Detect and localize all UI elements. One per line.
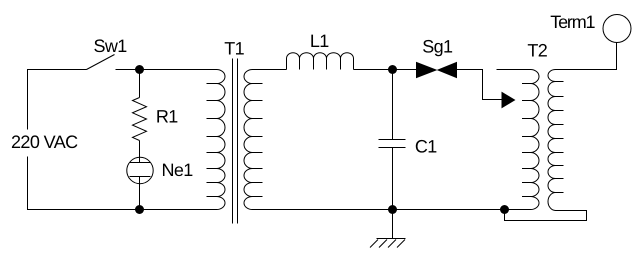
svg-text:220 VAC: 220 VAC [11,132,78,152]
wire: left rail upper (220 VAC loop) [28,70,87,130]
transformer T2 primary winding ticks [522,84,531,197]
svg-text:C1: C1 [415,136,437,156]
switch Sw1 blade [87,55,115,70]
svg-text:Sw1: Sw1 [94,36,128,56]
transformer T1 core [232,59,234,224]
svg-text:T2: T2 [527,41,547,61]
capacitor C1 top lead [392,70,394,140]
capacitor C1 top plate [379,139,406,141]
resistor R1 zigzag [133,98,147,141]
spark gap Sg1 left electrode [417,63,437,78]
node: junction dot T2 bottom [500,205,509,214]
neon lamp Ne1 top electrode [130,162,151,164]
svg-text:Ne1: Ne1 [162,160,194,180]
svg-text:R1: R1 [156,107,178,127]
wire: T2 primary top lead (open) [497,69,531,71]
wire: bottom rail T1 secondary to T2 primary [253,209,531,211]
transformer T1 primary winding ticks [207,84,217,197]
wire: junction down to R1 [139,70,141,98]
wire: R1 to Ne1 top electrode [139,141,141,163]
transformer T1 secondary winding ticks [253,84,263,197]
transformer T2 secondary winding ticks [556,82,564,193]
ground symbol hatching [370,240,405,248]
neon lamp Ne1 envelope [127,157,153,183]
svg-text:Term1: Term1 [550,12,595,32]
wire: T1 secondary top to L1 [253,69,287,71]
wire: switch output to T1 primary top [116,69,217,71]
tap arrow into T2 primary [502,93,515,108]
wire: bottom rail to T1 primary bottom [140,209,217,211]
transformer T2 secondary winding arcs [548,70,555,211]
neon lamp Ne1 bottom electrode [130,176,151,178]
spark gap Sg1 right electrode [438,63,457,78]
terminal Term1 sphere [603,15,631,43]
wire: junction to spark gap Sg1 [393,69,417,71]
capacitor C1 bottom plate [379,147,406,149]
inductor L1 loops [287,53,354,59]
wire: Sg1 to T2 primary tap [457,70,503,100]
wire: L1 to C1 top junction [354,69,417,71]
transformer T1 secondary winding arcs [244,70,253,210]
ground symbol bar [377,238,406,240]
node: junction dot C1 bottom / ground [388,205,397,214]
node: junction dot bottom of Ne1 branch [135,205,144,214]
node: junction dot L1/C1/Sg1 [388,65,397,74]
wire: T2 secondary bottom return loop [505,210,587,221]
transformer T1 primary winding arcs [217,70,226,210]
inductor L1 legs [287,59,354,70]
svg-text:L1: L1 [310,31,329,51]
svg-text:Sg1: Sg1 [422,37,453,57]
wire: left rail lower [28,157,140,210]
wire: junction to ground symbol [392,210,394,239]
wire: T2 secondary top to terminal [556,43,617,70]
transformer T2 primary winding arcs [531,70,540,210]
wire: Ne1 to bottom rail [139,177,141,210]
svg-text:T1: T1 [224,39,244,59]
capacitor C1 bottom lead [392,148,394,210]
node: junction dot at switch/R1 branch [135,65,144,74]
